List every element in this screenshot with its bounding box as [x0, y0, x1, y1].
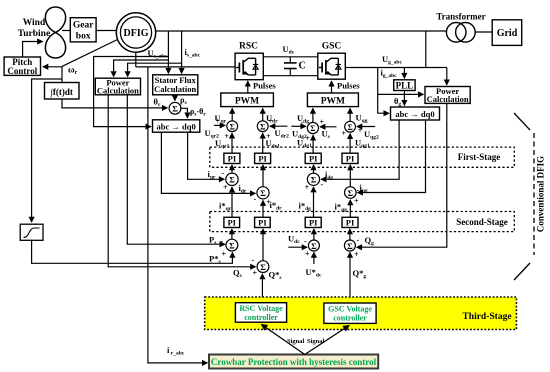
svg-text:RSC: RSC — [239, 42, 258, 52]
transform abc to dq0 grid — [391, 107, 440, 120]
summer Udc — [308, 240, 319, 251]
wire iqg from grid abc-dq0 — [358, 120, 426, 193]
svg-text:-: - — [357, 235, 360, 244]
wire idr from rotor abc-dq0 — [161, 132, 255, 193]
wire Qg from grid power calc — [357, 103, 447, 247]
wire crowbar signal to RSC controller — [262, 325, 305, 355]
wire transformer to grid — [475, 31, 492, 33]
svg-text:PI: PI — [228, 154, 237, 164]
svg-text:Calculation: Calculation — [427, 94, 469, 104]
svg-text:Σ: Σ — [311, 175, 317, 185]
svg-text:Σ: Σ — [310, 124, 315, 133]
svg-text:+: + — [306, 134, 311, 143]
svg-text:Σ: Σ — [260, 122, 265, 131]
wire ig_abc tap to grid abc-dq0 — [378, 68, 389, 114]
svg-text:PLL: PLL — [396, 81, 414, 91]
PI power controller col4 — [342, 217, 358, 227]
PI current controller col1 — [224, 153, 240, 163]
svg-text:PI: PI — [346, 218, 355, 228]
svg-text:PWM: PWM — [235, 97, 259, 107]
svg-text:+: + — [253, 269, 258, 278]
limiter block — [20, 224, 43, 240]
PLL — [394, 80, 415, 91]
pitch control — [4, 57, 40, 75]
wire turbine to gearbox — [62, 30, 70, 32]
svg-text:Crowbar Protection with hyster: Crowbar Protection with hysteresis contr… — [211, 357, 377, 367]
svg-text:PI: PI — [346, 154, 355, 164]
wire idg from grid abc-dq0 — [321, 120, 399, 179]
summer Uqg — [345, 121, 356, 132]
GSC voltage controller — [324, 303, 376, 323]
wire gearbox to DFIG — [96, 30, 116, 32]
svg-text:PI: PI — [227, 218, 236, 228]
svg-text:PI: PI — [258, 154, 267, 164]
wire rotor line DFIG to RSC — [135, 52, 137, 67]
PI power controller col1 — [224, 217, 240, 227]
svg-text:C: C — [299, 61, 306, 72]
svg-text:RSC Voltage: RSC Voltage — [239, 304, 283, 313]
svg-text:+: + — [223, 183, 228, 192]
svg-text:+: + — [354, 197, 359, 206]
wire summer output to abc-dq0 — [181, 108, 188, 118]
svg-text:Σ: Σ — [347, 241, 353, 251]
capacitor C — [284, 57, 297, 76]
svg-text:Wind: Wind — [23, 18, 46, 28]
svg-text:Calculation: Calculation — [154, 84, 196, 94]
svg-text:-: - — [304, 237, 307, 246]
svg-text:PI: PI — [309, 218, 318, 228]
PWM RSC — [221, 93, 274, 107]
wind turbine blades — [45, 7, 65, 58]
svg-text:Turbine: Turbine — [18, 29, 50, 39]
wire bus drop to grid power calc — [446, 68, 448, 85]
wire Ps from power calc to summer — [127, 95, 225, 244]
svg-text:DFIG: DFIG — [124, 28, 149, 39]
PI current controller col2 — [255, 153, 271, 163]
generator DFIG — [116, 13, 155, 52]
PI power controller col2 — [255, 217, 271, 227]
svg-text:Third-Stage: Third-Stage — [462, 312, 511, 322]
wire speed to pitch control — [43, 66, 62, 68]
svg-text:∫f(t)dt: ∫f(t)dt — [49, 87, 72, 98]
wire bus to PLL — [403, 68, 405, 79]
wire speed to integrator — [61, 66, 63, 82]
summer Ps — [226, 239, 238, 251]
crowbar protection block — [209, 355, 378, 369]
wind turbine label — [18, 18, 50, 39]
svg-text:abc → dq0: abc → dq0 — [395, 109, 434, 119]
svg-text:Σ: Σ — [230, 122, 235, 131]
svg-text:Transformer: Transformer — [436, 12, 485, 22]
summer iqr — [226, 173, 238, 185]
wire DC link bottom rail — [263, 75, 318, 77]
wire Us tap from bus to stator flux calc — [167, 31, 169, 73]
PI current controller col3 — [305, 153, 321, 163]
wire Us branch to rotor abc-dq0 — [94, 57, 169, 127]
summer Udg — [307, 122, 318, 133]
svg-text:Second-Stage: Second-Stage — [456, 217, 508, 227]
conventional DFIG bracket top slash — [514, 113, 530, 130]
svg-text:PWM: PWM — [321, 97, 345, 107]
power calculation stator — [95, 78, 140, 95]
svg-text:+: + — [225, 132, 230, 141]
PWM GSC — [307, 93, 358, 107]
svg-text:Gear: Gear — [73, 21, 94, 31]
svg-text:Σ: Σ — [311, 241, 317, 251]
svg-text:abc → dq0: abc → dq0 — [156, 121, 195, 131]
svg-text:PI: PI — [309, 154, 318, 164]
svg-text:-: - — [301, 118, 304, 127]
summer iqg — [345, 187, 357, 199]
svg-text:Signal: Signal — [287, 338, 305, 345]
svg-text:+: + — [216, 117, 221, 126]
RSC voltage controller — [235, 303, 286, 323]
svg-text:+: + — [320, 118, 325, 127]
PI power controller col3 — [305, 217, 321, 227]
wire theta r to summer — [62, 99, 167, 108]
wire is tap from bus to stator flux calc — [181, 31, 183, 73]
power calculation grid — [425, 87, 470, 104]
grid — [492, 20, 522, 46]
svg-text:controller: controller — [333, 314, 367, 323]
svg-text:-: - — [321, 180, 324, 189]
third stage box — [205, 297, 517, 330]
wire Qs from power calc to summer — [108, 95, 255, 267]
wire speed branch to limiter — [32, 79, 62, 222]
summer rho s minus theta r — [169, 102, 181, 114]
wire rotor current to crowbar — [148, 67, 207, 363]
wire pulses GSC — [331, 81, 333, 93]
svg-text:Σ: Σ — [348, 188, 354, 198]
summer idr — [257, 187, 269, 199]
svg-text:Conventional DFIG: Conventional DFIG — [536, 156, 546, 232]
wire Us branch to power calc — [114, 60, 169, 77]
svg-text:Σ: Σ — [172, 104, 178, 114]
svg-text:Σ: Σ — [229, 175, 235, 185]
svg-text:GSC Voltage: GSC Voltage — [328, 305, 372, 314]
PI current controller col4 — [342, 153, 358, 163]
svg-text:Pulses: Pulses — [337, 81, 360, 91]
wire iqr from rotor abc-dq0 — [188, 132, 225, 179]
transform abc to dq0 rotor — [153, 120, 200, 132]
wire rho s into summer — [174, 95, 176, 101]
svg-text:controller: controller — [244, 313, 278, 322]
integrator f(t)dt — [45, 83, 80, 100]
svg-text:Signal: Signal — [307, 338, 325, 345]
svg-text:-: - — [252, 256, 255, 265]
wire pitch control to turbine — [23, 42, 43, 58]
wire tap into grid power calc — [378, 93, 424, 95]
svg-text:-: - — [222, 169, 225, 178]
svg-text:-: - — [357, 185, 360, 194]
transformer — [446, 23, 466, 43]
svg-text:+: + — [269, 117, 274, 126]
summer Uqr — [227, 121, 238, 132]
wire GSC output bus — [345, 67, 447, 69]
stator flux calculation — [153, 75, 198, 95]
gear box — [70, 18, 96, 42]
svg-text:Grid: Grid — [497, 28, 518, 39]
wire is branch to power calc — [128, 63, 182, 76]
svg-text:+: + — [222, 250, 227, 259]
conventional DFIG bracket bottom slash — [514, 263, 530, 280]
svg-text:-: - — [254, 195, 257, 204]
svg-text:+: + — [358, 126, 363, 135]
summer idg — [307, 173, 319, 185]
wire main stator bus DFIG to transformer — [156, 30, 447, 32]
svg-text:Σ: Σ — [260, 262, 266, 272]
svg-text:+: + — [305, 183, 310, 192]
summer Udr — [257, 121, 268, 132]
svg-text:+: + — [342, 129, 347, 138]
wire DFIG speed diagonal — [62, 40, 118, 67]
svg-text:box: box — [76, 32, 91, 42]
svg-text:Calculation: Calculation — [97, 86, 139, 96]
svg-text:First-Stage: First-Stage — [458, 152, 501, 162]
svg-text:GSC: GSC — [322, 42, 342, 52]
wire bus riser to main line — [425, 31, 427, 68]
svg-text:Control: Control — [7, 66, 37, 76]
conventional DFIG bracket dashed line — [533, 133, 535, 255]
wire DC link top rail — [263, 56, 318, 58]
second stage dashed box — [210, 212, 515, 232]
wire crowbar signal to GSC controller — [305, 326, 349, 355]
svg-text:Σ: Σ — [229, 240, 235, 250]
wire limiter output P*s reference — [32, 240, 233, 263]
svg-text:+: + — [354, 250, 359, 259]
svg-text:PI: PI — [258, 218, 267, 228]
wire PLL theta g to abc-dq0 — [403, 91, 405, 106]
first stage dashed box — [210, 147, 515, 167]
svg-text:Σ: Σ — [347, 123, 352, 132]
summer Qg — [344, 240, 355, 251]
svg-text:Pulses: Pulses — [253, 81, 276, 91]
svg-text:-: - — [221, 237, 224, 246]
summer Qs — [257, 261, 269, 273]
wire pulses RSC — [247, 81, 249, 93]
svg-text:+: + — [305, 250, 310, 259]
